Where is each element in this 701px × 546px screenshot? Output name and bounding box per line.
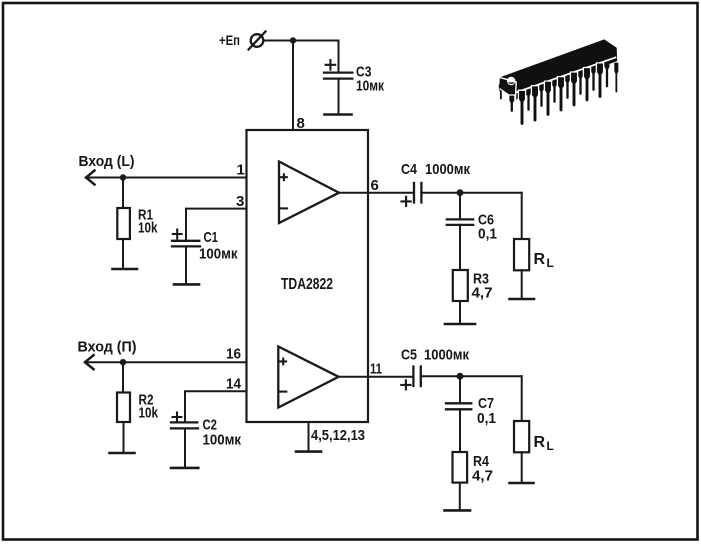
ground: R1 xyxy=(113,268,138,271)
wire: pin 3 to C1 xyxy=(186,209,247,241)
svg-text:4,7: 4,7 xyxy=(472,285,493,302)
resistor R2 xyxy=(117,362,130,453)
ground: R3 xyxy=(445,323,475,326)
junction: input L node xyxy=(120,174,126,180)
svg-text:Вход (L): Вход (L) xyxy=(79,153,135,170)
wire: power node down to pin 8 xyxy=(292,41,294,131)
svg-text:4,7: 4,7 xyxy=(472,468,493,485)
resistor RL (top) xyxy=(514,239,529,270)
DIP notch xyxy=(507,77,515,85)
svg-text:100мк: 100мк xyxy=(203,432,242,449)
resistor RL (bottom) xyxy=(514,421,529,452)
svg-text:1000мк: 1000мк xyxy=(425,161,470,178)
wire: RL (top) to ground xyxy=(521,270,523,299)
wire: pin 6 output to C4 xyxy=(339,192,414,194)
svg-text:R: R xyxy=(534,251,546,268)
ground: RL bottom xyxy=(510,482,534,485)
wire: down to RL (top) xyxy=(521,193,523,239)
ground: C1 xyxy=(174,283,199,286)
arrow: input L xyxy=(86,170,96,186)
ground: R4 xyxy=(445,509,471,512)
wire: input П to pin 16 xyxy=(85,361,247,363)
svg-text:C4: C4 xyxy=(401,161,418,178)
svg-text:+Eп: +Eп xyxy=(219,32,240,48)
power terminal +En xyxy=(219,32,266,50)
wire: C4 to RL top channel xyxy=(421,192,521,194)
junction: input П node xyxy=(120,359,126,365)
svg-text:100мк: 100мк xyxy=(199,246,238,263)
resistor R4 xyxy=(453,452,468,510)
wire: C5 to RL bottom channel xyxy=(421,375,522,377)
wire: pins 4,5,12,13 to ground xyxy=(308,422,310,451)
resistor R1 xyxy=(117,178,130,270)
op-amp A (top half) xyxy=(279,162,339,224)
capacitor C3 xyxy=(324,41,352,115)
svg-text:L: L xyxy=(547,439,554,453)
capacitor C2 xyxy=(171,413,198,468)
DIP seam top/front faces xyxy=(516,57,617,92)
wire: pin 14 to C2 xyxy=(185,391,247,422)
capacitor C6 xyxy=(447,193,473,270)
DIP-16 package illustration xyxy=(498,39,619,125)
ground: C2 xyxy=(171,467,198,470)
svg-text:11: 11 xyxy=(370,361,382,378)
ground: C3 xyxy=(325,113,352,116)
svg-text:L: L xyxy=(547,256,554,270)
op-amp B (bottom half) xyxy=(278,347,338,408)
DIP front row pins xyxy=(509,63,604,126)
svg-text:0,1: 0,1 xyxy=(478,226,497,243)
wire: pin 11 output to C5 xyxy=(339,376,413,378)
svg-text:1000мк: 1000мк xyxy=(424,347,469,364)
svg-text:C5: C5 xyxy=(401,347,417,364)
svg-text:10k: 10k xyxy=(138,220,158,237)
ground: R2 xyxy=(110,452,135,455)
junction: power node xyxy=(290,37,296,43)
wire: power terminal to C3 top xyxy=(264,40,339,42)
DIP body xyxy=(499,39,617,99)
capacitor C5 xyxy=(401,367,421,390)
ground: IC pins xyxy=(296,450,321,453)
junction: top output node xyxy=(457,189,464,196)
svg-text:R: R xyxy=(534,434,546,451)
capacitor C4 xyxy=(402,183,422,206)
svg-text:TDA2822: TDA2822 xyxy=(281,276,333,293)
wire: down to RL (bottom) xyxy=(521,376,523,421)
capacitor C1 xyxy=(172,230,200,285)
svg-text:16: 16 xyxy=(226,346,241,363)
svg-text:3: 3 xyxy=(236,193,244,210)
svg-text:0,1: 0,1 xyxy=(477,410,496,427)
junction: bottom output node xyxy=(457,373,464,380)
svg-text:14: 14 xyxy=(226,376,242,393)
svg-text:6: 6 xyxy=(371,177,379,194)
wire: input L to pin 1 xyxy=(86,177,247,179)
DIP back row pins xyxy=(498,58,619,112)
svg-text:Вход (П): Вход (П) xyxy=(78,339,137,356)
wire: RL (bottom) to ground xyxy=(521,452,523,483)
capacitor C7 xyxy=(446,376,471,452)
svg-text:10мк: 10мк xyxy=(356,78,384,95)
ground: RL top xyxy=(510,298,535,301)
DIP end cap seams xyxy=(500,78,516,100)
svg-text:1: 1 xyxy=(237,162,245,179)
svg-text:10k: 10k xyxy=(139,405,159,422)
op-amp U1 box TDA2822 xyxy=(247,130,369,422)
resistor R3 xyxy=(453,270,468,324)
arrow: input П xyxy=(85,354,95,370)
svg-text:4,5,12,13: 4,5,12,13 xyxy=(311,427,365,444)
svg-text:C1: C1 xyxy=(204,229,219,246)
